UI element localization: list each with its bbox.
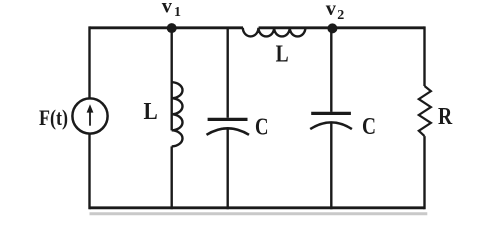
wire capacitor C1 branch lower lead (226, 129, 228, 210)
svg-text:C: C (255, 113, 269, 140)
capacitor C2 top plate (311, 112, 351, 115)
svg-text:F(t): F(t) (39, 105, 68, 130)
svg-text:v: v (326, 0, 337, 20)
wire top rail right segment (v2 side) (259, 26, 425, 29)
capacitor C1 curved plate (207, 128, 250, 135)
wire capacitor C1 branch upper lead (226, 28, 228, 118)
label v2 (326, 0, 345, 23)
wire top rail left segment (v1 side) (90, 26, 244, 29)
shadow under bottom rail (90, 212, 428, 215)
svg-text:R: R (438, 103, 452, 130)
inductor L2 horizontal loops (243, 28, 306, 37)
wire resistor branch upper lead (423, 26, 425, 86)
wire inductor branch lower lead (170, 146, 172, 209)
wire capacitor C2 branch upper lead (330, 28, 332, 112)
wire capacitor C2 branch lower lead (330, 123, 332, 209)
wire inductor branch upper lead (behind loops) (170, 26, 172, 130)
svg-text:v: v (162, 0, 173, 18)
capacitor C2 curved plate (310, 122, 352, 129)
svg-text:2: 2 (337, 8, 344, 23)
capacitor C1 top plate (208, 118, 248, 121)
wire left branch lower lead (88, 134, 90, 210)
wire left branch upper lead (88, 26, 90, 98)
svg-text:L: L (144, 98, 158, 125)
svg-text:C: C (362, 113, 376, 140)
inductor L1 vertical loops (172, 82, 183, 146)
resistor R zigzag (419, 86, 431, 136)
svg-text:L: L (276, 41, 289, 68)
wire bottom rail (90, 206, 425, 209)
node v2 junction dot (327, 23, 337, 33)
current source arrow (87, 104, 94, 125)
current source F(t) circle U1 (72, 98, 107, 133)
wire resistor branch lower lead (423, 136, 425, 209)
label v1 (162, 0, 181, 20)
svg-text:1: 1 (174, 5, 181, 20)
node v1 junction dot (167, 23, 177, 33)
